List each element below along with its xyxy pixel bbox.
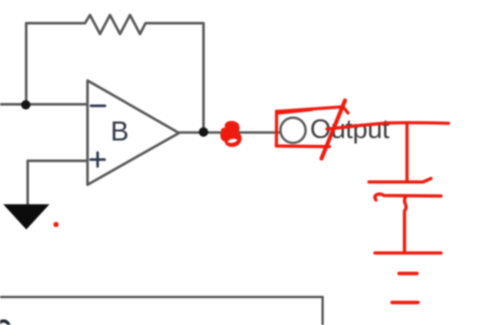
svg-text:Output: Output [310, 114, 390, 144]
svg-text:B: B [111, 115, 129, 146]
